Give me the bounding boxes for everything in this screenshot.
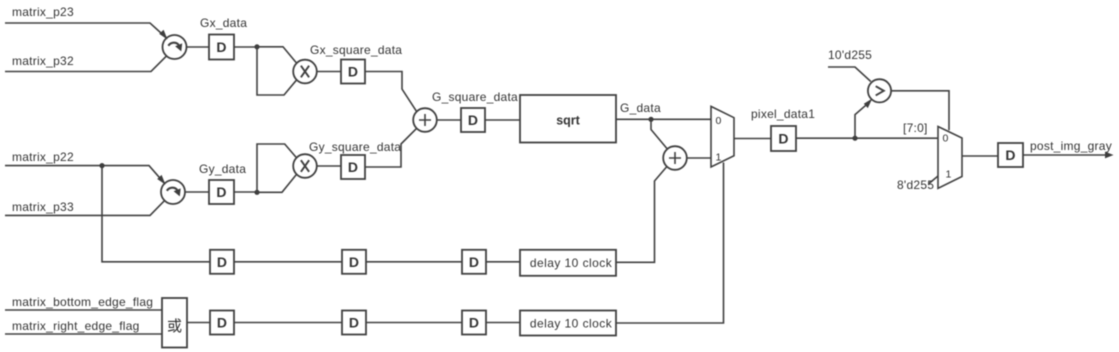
svg-text:D: D	[216, 184, 226, 200]
sqrt block	[520, 95, 616, 143]
svg-text:D: D	[469, 254, 479, 270]
svg-text:D: D	[217, 315, 227, 331]
register D12	[342, 311, 366, 335]
node pixel_data1	[852, 136, 857, 141]
register D2 Gx_square_data	[341, 60, 365, 84]
svg-text:D: D	[1005, 147, 1015, 163]
svg-text:matrix_right_edge_flag: matrix_right_edge_flag	[12, 319, 140, 333]
wire matrix_p23	[5, 23, 167, 38]
wire node to comparator	[855, 103, 869, 139]
wire A1 to D3	[437, 119, 461, 121]
wire 8'd255 to mux M2 input1	[929, 176, 938, 184]
delay row1 wires	[102, 166, 520, 262]
mux M1	[711, 106, 734, 167]
fanout F1	[257, 47, 297, 95]
wire delay1 to adder A2	[616, 167, 667, 263]
svg-text:delay 10 clock: delay 10 clock	[530, 316, 613, 330]
svg-text:或: 或	[167, 318, 182, 335]
wire matrix_p33	[5, 200, 165, 215]
wire D4 to node	[234, 191, 257, 193]
wire D1 to node	[234, 46, 257, 48]
node after D4	[254, 190, 259, 195]
svg-text:D: D	[469, 315, 479, 331]
adder A2	[663, 146, 687, 170]
wire sqrt to mux M1 input0	[616, 118, 711, 120]
svg-text:0: 0	[716, 115, 722, 127]
register D9	[342, 250, 366, 274]
wire matrix_p32	[5, 56, 167, 72]
svg-text:D: D	[216, 39, 226, 55]
svg-text:1: 1	[946, 169, 952, 181]
wire D5 to adder A1	[365, 128, 417, 167]
comparator GT	[868, 79, 891, 102]
register D1 Gx_data	[209, 35, 234, 60]
subtractor SUB2	[161, 180, 185, 204]
wire G_data node to adder A2	[651, 119, 667, 148]
svg-text:D: D	[217, 254, 227, 270]
svg-text:matrix_p22: matrix_p22	[12, 150, 74, 164]
svg-text:matrix_bottom_edge_flag: matrix_bottom_edge_flag	[12, 295, 153, 309]
svg-text:D: D	[349, 315, 359, 331]
wire X2 to D5	[317, 165, 341, 167]
svg-text:8'd255: 8'd255	[897, 178, 934, 192]
svg-text:matrix_p32: matrix_p32	[12, 54, 74, 68]
subtractor SUB1	[163, 35, 187, 59]
wire D3 to sqrt	[485, 119, 520, 121]
wire M1 out to D6	[734, 138, 771, 140]
svg-text:Gx_data: Gx_data	[200, 16, 247, 30]
svg-text:D: D	[348, 159, 358, 175]
svg-text:Gy_data: Gy_data	[199, 162, 246, 176]
wire X1 to D2	[317, 71, 341, 73]
mux M2	[938, 127, 962, 189]
wire A2 to mux M1 input1	[687, 157, 711, 159]
node on p22	[99, 163, 104, 168]
wire M2 out to D7	[962, 155, 998, 157]
adder A1	[413, 108, 437, 132]
svg-text:D: D	[468, 112, 478, 128]
wire 10'd255 to comparator	[828, 67, 871, 82]
svg-text:0: 0	[943, 133, 949, 145]
svg-text:10'd255: 10'd255	[828, 48, 872, 62]
flag wires	[5, 310, 162, 334]
register D5 Gy_square_data	[341, 155, 365, 179]
svg-text:D: D	[778, 131, 788, 147]
register D6 pixel_data1	[771, 126, 796, 151]
wire SUB2 to D4	[185, 191, 209, 193]
svg-text:Gx_square_data: Gx_square_data	[310, 43, 402, 57]
wire SUB1 to D1	[187, 46, 210, 48]
OR block	[162, 298, 187, 348]
wire matrix_p22	[5, 166, 165, 184]
register D11	[210, 311, 234, 335]
wire D6 to mux M2 input0	[796, 137, 938, 139]
svg-text:G_data: G_data	[620, 101, 661, 115]
multiplier X1	[293, 60, 317, 84]
svg-text:sqrt: sqrt	[556, 114, 580, 128]
delay block 2	[520, 311, 616, 336]
svg-text:1: 1	[716, 152, 722, 164]
svg-text:G_square_data: G_square_data	[432, 90, 518, 104]
multiplier X2	[293, 154, 317, 178]
svg-text:Gy_square_data: Gy_square_data	[309, 140, 401, 154]
register D3 G_square_data	[461, 108, 485, 132]
wire delay2 to mux M1 select	[616, 163, 724, 324]
flag row wires	[187, 322, 520, 324]
svg-text:matrix_p23: matrix_p23	[12, 5, 74, 19]
register D10	[462, 250, 486, 274]
register D7 post	[998, 143, 1023, 167]
wire comparator to M2 select	[891, 91, 949, 130]
wire D2 to adder A1	[365, 72, 417, 112]
fanout F2	[257, 144, 297, 192]
svg-text:pixel_data1: pixel_data1	[751, 107, 815, 121]
svg-text:D: D	[349, 254, 359, 270]
register D8	[210, 250, 234, 274]
node after D1	[254, 44, 259, 49]
svg-text:delay 10 clock: delay 10 clock	[530, 256, 613, 270]
register D13	[462, 311, 486, 335]
node G_data	[648, 117, 653, 122]
delay block 1	[520, 250, 616, 276]
register D4 Gy_data	[209, 180, 234, 204]
svg-text:D: D	[348, 64, 358, 80]
svg-text:[7:0]: [7:0]	[903, 121, 928, 135]
svg-text:post_img_gray: post_img_gray	[1030, 139, 1112, 153]
wire D7 to output arrow	[1023, 154, 1108, 156]
svg-text:matrix_p33: matrix_p33	[12, 200, 74, 214]
